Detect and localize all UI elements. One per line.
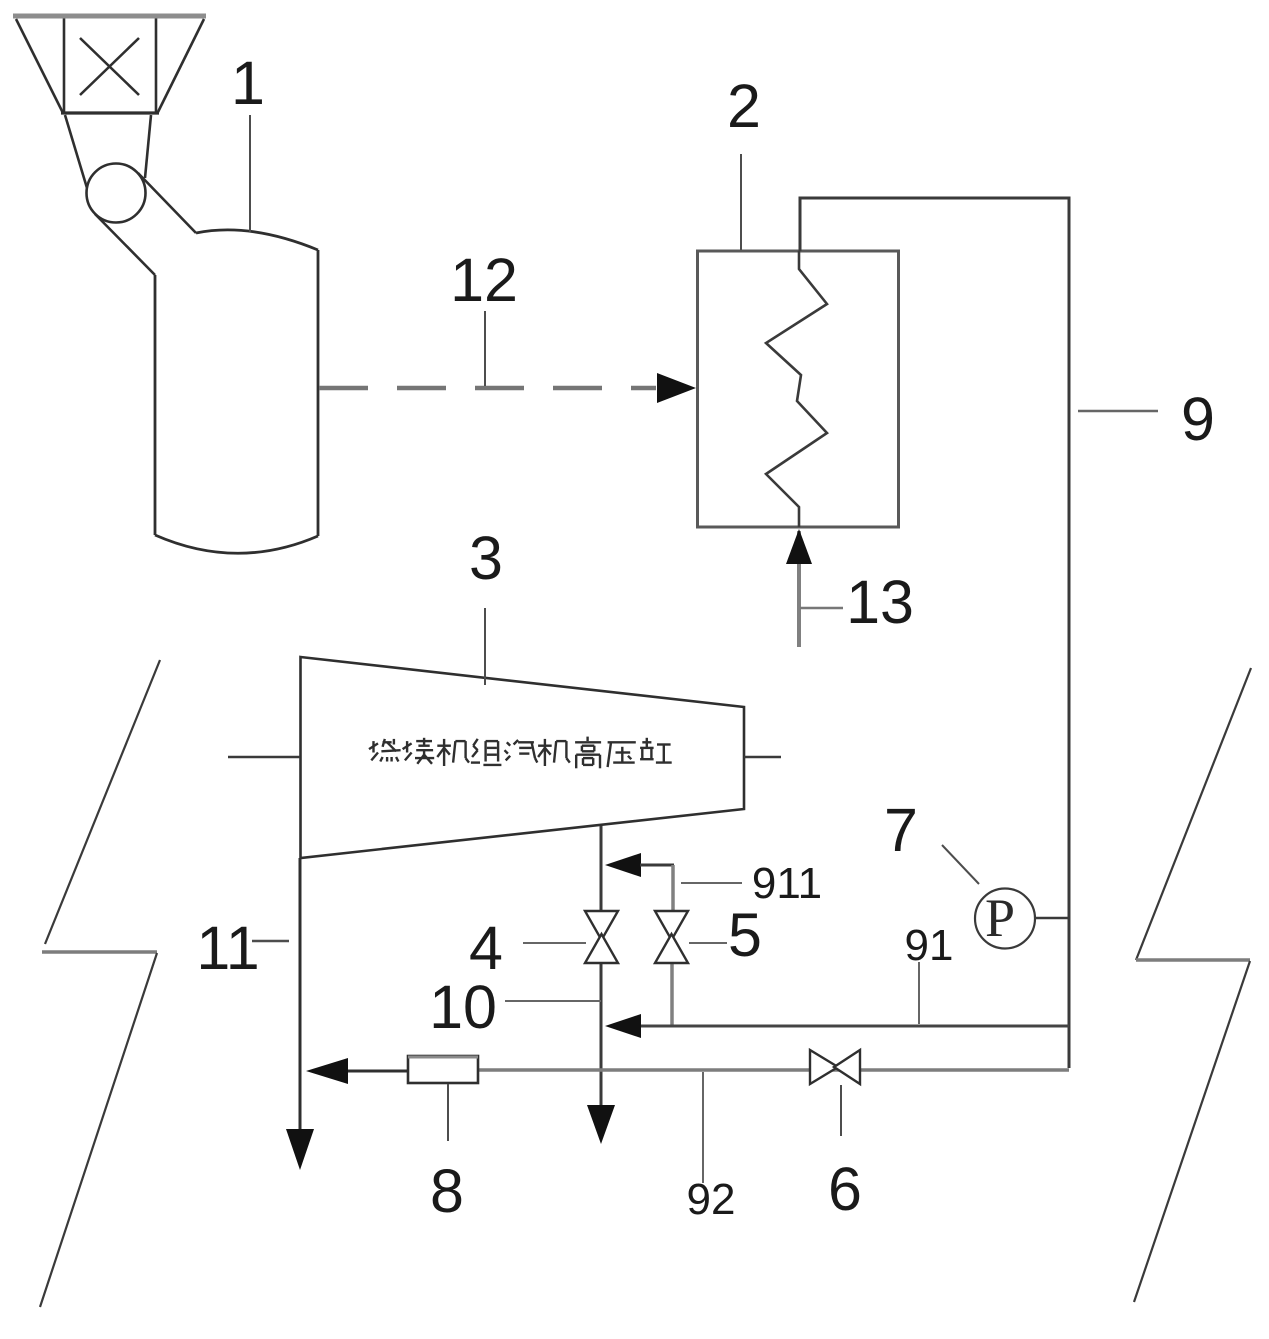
svg-text:91: 91 (905, 921, 954, 970)
svg-text:11: 11 (196, 914, 259, 982)
svg-text:7: 7 (884, 796, 918, 864)
svg-text:8: 8 (430, 1157, 464, 1225)
svg-text:3: 3 (469, 524, 503, 592)
svg-text:5: 5 (728, 901, 762, 969)
svg-text:6: 6 (828, 1155, 862, 1223)
svg-text:9: 9 (1181, 385, 1215, 453)
svg-text:92: 92 (687, 1175, 736, 1224)
svg-text:911: 911 (752, 859, 822, 908)
svg-text:1: 1 (231, 49, 265, 117)
svg-text:P: P (985, 888, 1015, 948)
svg-text:4: 4 (469, 914, 503, 982)
svg-text:10: 10 (429, 973, 497, 1041)
svg-text:2: 2 (727, 72, 761, 140)
svg-text:12: 12 (450, 246, 518, 314)
svg-text:13: 13 (846, 568, 914, 636)
